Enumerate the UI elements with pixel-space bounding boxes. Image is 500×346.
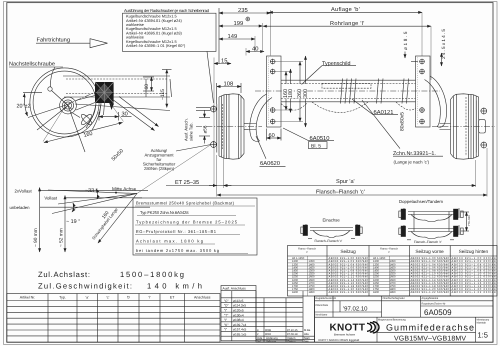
Ausf/Anschluss mini table xyxy=(221,286,303,341)
right wheel bolts xyxy=(481,108,488,149)
svg-text:"T": "T" xyxy=(224,313,228,317)
svg-text:bei tandem 2x1750 max. 350: bei tandem 2x1750 max. 3500 kg xyxy=(136,248,220,253)
svg-text:'a': 'a' xyxy=(86,296,90,300)
svg-text:Ausf. Anschluss: Ausf. Anschluss xyxy=(223,287,247,291)
svg-text:Doppelachsen/Tandem: Doppelachsen/Tandem xyxy=(399,199,443,204)
svg-text:'b': 'b' xyxy=(127,296,131,300)
leader from note box to wheel bolt xyxy=(207,51,214,103)
svg-text:Fahrtrichtung: Fahrtrichtung xyxy=(37,37,71,44)
svg-text:Flansch–Flansch 'c': Flansch–Flansch 'c' xyxy=(414,240,442,244)
svg-text:Artikel–Nr 43696–1 01 (Kegel: Artikel–Nr 43696–1 01 (Kegel 60°) xyxy=(126,43,186,48)
svg-text:149: 149 xyxy=(228,33,238,40)
svg-text:ø18.5: ø18.5 xyxy=(403,31,408,50)
svg-text:"K": "K" xyxy=(224,323,228,327)
svg-text:Megnevezes/Benennung: Megnevezes/Benennung xyxy=(378,319,406,322)
svg-text:60: 60 xyxy=(269,133,275,139)
left wheel bolts xyxy=(196,106,217,149)
svg-text:Rugalds/Geskchnt: Rugalds/Geskchnt xyxy=(316,297,337,300)
dimension 15 xyxy=(214,59,231,65)
svg-text:"I": "I" xyxy=(224,318,227,322)
svg-text:Bl. 5: Bl. 5 xyxy=(311,144,321,150)
svg-text:AB033 921–1.22 630/940: AB033 921–1.22 630/940 xyxy=(411,291,450,294)
front view left lever arm xyxy=(244,94,272,142)
svg-text:6A0509: 6A0509 xyxy=(424,308,452,317)
main variant table bottom-left xyxy=(7,294,220,343)
svg-text:~ 19 °: ~ 19 ° xyxy=(66,219,80,225)
dimension Rohrlaenge l xyxy=(263,20,431,80)
svg-text:ø157.4x5: ø157.4x5 xyxy=(233,328,247,332)
svg-text:Flansch–Flansch 'c': Flansch–Flansch 'c' xyxy=(316,189,365,196)
svg-text:Bremsstummel 250x40 Spreizhe: Bremsstummel 250x40 Spreizhebel (Backmat… xyxy=(136,201,235,206)
svg-text:EG–Prufprotokoll Nr.: 361–18: EG–Prufprotokoll Nr.: 361–185–B1 xyxy=(136,229,217,234)
svg-text:Anyag/Material: Anyag/Material xyxy=(422,297,439,300)
svg-text:siehe Tab.: siehe Tab. xyxy=(189,122,194,141)
title block xyxy=(315,296,494,343)
front view: left flange plate xyxy=(267,56,282,127)
svg-text:KNOTT GmbH D 83125 Egg: KNOTT GmbH D 83125 Eggstatt xyxy=(319,338,360,342)
6A0121 label xyxy=(352,99,398,116)
svg-text:Zul.Achslast:: Zul.Achslast: xyxy=(38,270,90,279)
svg-text:"C": "C" xyxy=(224,299,229,303)
dimension 60 flange width xyxy=(267,129,282,141)
dimension 40 xyxy=(246,46,264,53)
svg-text:Nachstellschraube: Nachstellschraube xyxy=(9,61,55,68)
6A0510 label xyxy=(283,128,334,150)
svg-text:VGB15MV–VGB18MV: VGB15MV–VGB18MV xyxy=(394,336,466,343)
Fahrtrichtung label and arrow xyxy=(36,37,108,48)
svg-text:140 km/h: 140 km/h xyxy=(147,281,202,290)
dimension dia 18.5 xyxy=(403,31,418,61)
svg-text:Seilzug: Seilzug xyxy=(340,249,356,254)
left view: rubber suspension cross-section (black box) xyxy=(95,82,114,115)
svg-text:(Lange je nach 'c'): (Lange je nach 'c') xyxy=(394,160,430,165)
svg-text:Mitte Achse: Mitte Achse xyxy=(112,186,137,191)
svg-text:180: 180 xyxy=(288,89,294,98)
Achtung torque note xyxy=(143,148,176,171)
svg-text:ø130x4: ø130x4 xyxy=(233,313,244,317)
Typenschild label xyxy=(301,61,356,85)
svg-text:6A0510: 6A0510 xyxy=(310,135,330,142)
svg-text:1850: 1850 xyxy=(390,291,396,294)
Einachse mini diagram xyxy=(301,218,362,243)
svg-text:60: 60 xyxy=(144,84,150,90)
dimension 108 xyxy=(217,81,241,104)
svg-text:ø165.1x5: ø165.1x5 xyxy=(233,333,247,337)
weld tick marks on tube xyxy=(341,79,409,104)
svg-text:"D": "D" xyxy=(224,304,229,308)
Flansch-Flansch c dimension line xyxy=(217,189,487,196)
svg-text:'l': 'l' xyxy=(148,296,150,300)
svg-text:ø120x5: ø120x5 xyxy=(233,309,244,313)
wheel bolt note box xyxy=(123,8,217,103)
front view: axle tube xyxy=(255,80,440,102)
dia 56 dimension xyxy=(199,110,210,144)
svg-text:ET 25–35: ET 25–35 xyxy=(175,180,199,186)
svg-text:9098: 9098 xyxy=(265,329,271,332)
svg-text:1800: 1800 xyxy=(373,291,379,294)
svg-text:Alta: Alta xyxy=(304,333,309,336)
svg-text:'97.02.10: '97.02.10 xyxy=(343,305,368,312)
Zchn.Nr.33921-1 label xyxy=(362,100,443,165)
left view: brake backplate circles xyxy=(30,68,99,152)
svg-text:Artikel Nr.: Artikel Nr. xyxy=(20,296,36,300)
svg-text:300: 300 xyxy=(303,89,309,98)
svg-text:Typ FK250 Zchn.Nr.6A0428: Typ FK250 Zchn.Nr.6A0428 xyxy=(140,210,189,215)
svg-text:Nev/Name: Nev/Name xyxy=(316,314,328,317)
svg-text:1:5: 1:5 xyxy=(478,331,488,340)
dimension 30 xyxy=(99,112,132,121)
svg-text:Rayzolszm/Zechn–Nr: Rayzolszm/Zechn–Nr xyxy=(422,303,446,306)
svg-text:"I": "I" xyxy=(224,328,227,332)
svg-text:Nev: Nev xyxy=(304,340,309,343)
dimension 235 xyxy=(219,7,271,64)
left view: lever to hub xyxy=(71,96,170,118)
dimension 149 xyxy=(219,33,255,40)
svg-text:~115: ~115 xyxy=(160,89,166,100)
6A0620 label xyxy=(256,136,286,167)
svg-text:Bremsen Achsen: Bremsen Achsen xyxy=(334,333,356,337)
svg-text:AB033 921–1.22 630/44: AB033 921–1.22 630/44 xyxy=(452,291,497,294)
fan lines from pivot xyxy=(48,190,137,194)
left view: leader diagonals to nut note xyxy=(112,97,159,131)
Zul.Achslast heading xyxy=(38,270,202,290)
svg-text:Spur 'a': Spur 'a' xyxy=(336,179,355,185)
svg-text:unbeladen: unbeladen xyxy=(10,205,31,210)
svg-text:Zul.Geschwindigkeit:: Zul.Geschwindigkeit: xyxy=(38,281,132,290)
Seilzug table xyxy=(288,246,498,297)
svg-text:Oberflachn/Signatur: Oberflachn/Signatur xyxy=(383,297,405,300)
svg-text:~33 °: ~33 ° xyxy=(85,188,98,194)
witness lines of top dims xyxy=(214,10,271,186)
svg-text:Ausführung der Radschrauben je: Ausführung der Radschrauben je nach Sche… xyxy=(124,8,210,13)
svg-text:235: 235 xyxy=(238,7,248,14)
dimension 160 lever length xyxy=(43,103,124,143)
left view: curved lines below box xyxy=(86,104,101,130)
svg-text:ø108x4: ø108x4 xyxy=(233,318,244,322)
svg-text:1500–1800kg: 1500–1800kg xyxy=(120,270,184,279)
svg-text:M.Ba: M.Ba xyxy=(304,329,311,332)
dimension 199 xyxy=(219,17,263,27)
svg-text:Gummifederachse: Gummifederachse xyxy=(386,322,474,332)
svg-text:Typenschild: Typenschild xyxy=(322,61,350,67)
svg-text:Achslast max. 1800 kg: Achslast max. 1800 kg xyxy=(136,239,204,244)
svg-text:Flansch–Flansch 'c': Flansch–Flansch 'c' xyxy=(315,239,343,243)
svg-text:Anschluss: Anschluss xyxy=(194,296,211,300)
right side drum view xyxy=(432,94,495,159)
svg-text:Vollast: Vollast xyxy=(44,196,57,201)
bolt spacing dims 160 180 260 300 xyxy=(275,56,309,127)
svg-text:97.08.18: 97.08.18 xyxy=(287,333,298,336)
lever angle fan diagram xyxy=(10,145,212,253)
svg-text:199: 199 xyxy=(234,20,244,27)
svg-text:AB033 921–1.22 630/940: AB033 921–1.22 630/940 xyxy=(329,291,369,294)
front view: right flange plate xyxy=(416,56,431,127)
svg-text:15: 15 xyxy=(221,59,227,65)
svg-text:"I": "I" xyxy=(224,309,227,313)
svg-text:9092: 9092 xyxy=(265,333,271,336)
dimension 60 band xyxy=(143,77,154,91)
KNOTT logo xyxy=(319,322,380,342)
svg-text:Masstab: Masstab xyxy=(477,322,487,325)
Doppelachsen/Tandem mini diagram xyxy=(399,199,471,244)
svg-text:ø139.7x4: ø139.7x4 xyxy=(233,323,247,327)
svg-text:Seilzug hinten: Seilzug hinten xyxy=(459,249,489,254)
Spur a dimension line xyxy=(166,148,487,197)
svg-text:97.10.15: 97.10.15 xyxy=(287,329,298,332)
hidden dashed arcs under tube xyxy=(312,102,368,113)
right side lever arm xyxy=(425,76,451,130)
svg-text:ø112x5: ø112x5 xyxy=(233,299,244,303)
svg-text:~ 90 mm: ~ 90 mm xyxy=(33,228,39,247)
svg-text:Jel: Jel xyxy=(257,340,261,343)
svg-text:770–910: 770–910 xyxy=(467,215,471,226)
dimension ~115 xyxy=(160,70,172,108)
brake data box xyxy=(133,198,257,255)
svg-text:ET: ET xyxy=(170,296,175,300)
svg-text:2xVollast: 2xVollast xyxy=(15,188,33,193)
svg-text:20°±2: 20°±2 xyxy=(17,104,31,110)
dimension 20 deg xyxy=(17,92,67,117)
left view: damper eye (crossed ellipses) xyxy=(80,113,93,126)
svg-text:Valtozas: Valtozas xyxy=(266,340,277,343)
svg-text:108: 108 xyxy=(224,81,234,88)
svg-text:ø114.3x5: ø114.3x5 xyxy=(233,304,246,308)
svg-text:ø56: ø56 xyxy=(202,125,207,133)
dimension Auflage b xyxy=(269,6,422,56)
dense value rows xyxy=(292,257,496,294)
svg-text:Datum: Datum xyxy=(288,340,297,343)
svg-text:~ 52 mm: ~ 52 mm xyxy=(59,228,65,247)
svg-text:1800: 1800 xyxy=(292,291,298,294)
svg-text:80x80x5: 80x80x5 xyxy=(400,112,406,131)
svg-text:Einachse: Einachse xyxy=(323,218,341,223)
left view: torsion arm band xyxy=(63,76,172,97)
front view left wheel hub/drum xyxy=(196,94,262,159)
svg-text:Typ.: Typ. xyxy=(59,296,66,300)
svg-text:280Nm (28kpm): 280Nm (28kpm) xyxy=(144,166,175,171)
revision table xyxy=(256,291,315,343)
svg-text:1850: 1850 xyxy=(309,291,315,294)
dimension 24.5x14.5 xyxy=(441,29,446,66)
svg-text:Dttum/Date: Dttum/Date xyxy=(316,304,329,307)
Nachstellschraube label xyxy=(9,61,63,87)
svg-text:Seilzug vorne: Seilzug vorne xyxy=(415,249,444,254)
Typenschild dashed plate on tube xyxy=(322,84,371,89)
svg-text:40: 40 xyxy=(252,46,258,53)
Ausf. Anschluss siehe Tab. note xyxy=(184,118,194,141)
svg-text:'c': 'c' xyxy=(106,296,109,300)
svg-text:Typbezeichnung der Bremse 2: Typbezeichnung der Bremse 25–2025 xyxy=(136,220,238,225)
